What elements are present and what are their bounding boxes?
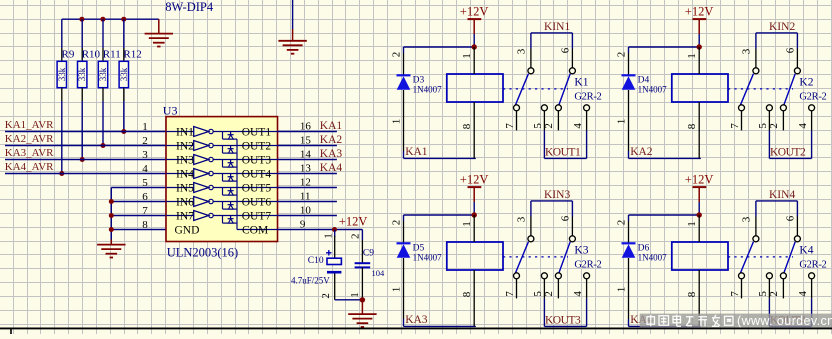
junction R10/KA3_AVR	[80, 157, 85, 162]
svg-text:KA4: KA4	[320, 162, 343, 174]
switch arms (unit K4)	[740, 242, 753, 273]
svg-text:2: 2	[543, 291, 555, 297]
svg-text:G2R-2: G2R-2	[799, 92, 826, 103]
svg-text:KIN2: KIN2	[769, 21, 795, 33]
wire net KA4_AVR	[5, 173, 166, 175]
svg-text:8W-DIP4: 8W-DIP4	[165, 0, 214, 14]
svg-text:+12V: +12V	[685, 4, 714, 18]
resistor R10 33k	[81, 19, 83, 48]
contact pins (unit K4)	[741, 279, 743, 299]
relay coil K3	[447, 242, 503, 270]
capacitor C10 4.7uF/25V	[334, 230, 336, 238]
svg-text:KA3: KA3	[320, 148, 343, 160]
capacitor C9 104	[361, 230, 363, 241]
wire KA3 net left (unit K3)	[403, 215, 405, 221]
junction +12V (unit K3)	[472, 212, 477, 217]
relay contacts K2	[755, 49, 757, 68]
svg-text:KA1_AVR: KA1_AVR	[5, 119, 54, 131]
svg-text:4.7uF/25V: 4.7uF/25V	[291, 275, 330, 285]
svg-text:104: 104	[372, 268, 386, 278]
svg-text:8: 8	[142, 219, 148, 231]
svg-text:2: 2	[616, 52, 628, 58]
svg-text:KA1: KA1	[320, 120, 343, 132]
net bracket KIN4	[756, 200, 798, 202]
relay coil K1	[447, 74, 503, 102]
switch arms (unit K2)	[740, 74, 753, 106]
svg-text:1: 1	[686, 53, 698, 59]
coil-contact link (unit K1)	[503, 88, 568, 90]
svg-text:KIN1: KIN1	[544, 21, 570, 33]
wire COM to +12V	[278, 229, 363, 231]
svg-text:R11: R11	[103, 49, 121, 61]
coil-contact link (unit K2)	[728, 88, 793, 90]
svg-text:6: 6	[559, 215, 571, 221]
svg-text:1: 1	[461, 53, 473, 59]
contact pins (unit K3)	[516, 279, 518, 299]
svg-text:IN7: IN7	[176, 211, 194, 223]
svg-text:1: 1	[142, 121, 148, 133]
op-chip U3 ULN2003 body	[166, 117, 278, 242]
diode D6 1N4007	[622, 242, 636, 244]
coil pins 1/8 (unit K1)	[473, 47, 475, 74]
svg-text:R9: R9	[62, 49, 75, 61]
diode D3 1N4007	[397, 74, 411, 76]
contact terminals (unit K1)	[528, 68, 534, 74]
net bracket KOUT1	[543, 130, 545, 158]
svg-text:6: 6	[784, 47, 796, 53]
wire U3 pin 10	[278, 215, 337, 217]
svg-text:OUT2: OUT2	[242, 141, 272, 153]
svg-text:K4: K4	[799, 245, 813, 257]
svg-text:2: 2	[768, 291, 780, 297]
svg-text:7: 7	[142, 205, 148, 217]
svg-text:KA3_AVR: KA3_AVR	[5, 147, 54, 159]
switch arms (unit K1)	[515, 74, 528, 106]
svg-text:OUT5: OUT5	[242, 183, 272, 195]
svg-text:C10: C10	[308, 256, 324, 266]
svg-text:KIN4: KIN4	[769, 189, 795, 201]
junction R11 top	[100, 17, 105, 22]
svg-text:KOUT1: KOUT1	[545, 146, 581, 158]
svg-text:2: 2	[543, 123, 555, 128]
svg-text:3: 3	[741, 216, 753, 222]
net bracket KOUT2	[768, 130, 770, 158]
svg-text:OUT1: OUT1	[242, 127, 272, 139]
wire +12V bus (unit K3)	[404, 214, 475, 216]
coil pins 1/8 (unit K4)	[698, 215, 700, 242]
svg-text:KIN3: KIN3	[544, 189, 570, 201]
svg-text:6: 6	[784, 215, 796, 221]
svg-text:33k: 33k	[57, 67, 67, 81]
svg-text:4: 4	[142, 163, 148, 175]
wire U3 pin 14	[278, 159, 337, 161]
junction R12/KA1_AVR	[121, 129, 126, 134]
U3 driver row 6	[166, 201, 194, 203]
svg-text:IN4: IN4	[176, 169, 194, 181]
svg-text:6: 6	[559, 47, 571, 53]
svg-text:GND: GND	[175, 225, 200, 237]
svg-text:10: 10	[300, 204, 312, 216]
wire U3 pin 15	[278, 145, 337, 147]
wire KA4 net left (unit K4)	[628, 215, 630, 221]
wire resistor top bus	[62, 18, 159, 20]
svg-text:13: 13	[300, 162, 312, 174]
svg-text:2: 2	[391, 52, 403, 58]
relay coil K2	[672, 74, 728, 102]
svg-text:KA1: KA1	[405, 146, 428, 158]
svg-text:2: 2	[349, 234, 361, 240]
wire U3 pin 16	[278, 131, 337, 133]
resistor R12 33k	[123, 19, 125, 48]
svg-text:COM: COM	[242, 225, 268, 237]
wire net KA2_AVR	[5, 145, 166, 147]
watermark	[640, 314, 832, 328]
svg-text:KOUT2: KOUT2	[770, 146, 806, 158]
svg-text:33k: 33k	[77, 67, 87, 81]
coil-contact link (unit K4)	[728, 256, 793, 258]
net bracket KIN3	[531, 200, 573, 202]
junction R9/KA4_AVR	[59, 171, 64, 176]
svg-text:2: 2	[616, 220, 628, 226]
svg-text:1: 1	[391, 287, 403, 293]
svg-text:1: 1	[616, 119, 628, 125]
junction pin7	[109, 213, 114, 218]
svg-text:R10: R10	[82, 49, 101, 61]
svg-text:1N4007: 1N4007	[413, 253, 442, 263]
junction +12V (unit K2)	[697, 44, 702, 49]
svg-text:8: 8	[686, 291, 698, 297]
svg-text:2: 2	[391, 220, 403, 226]
svg-text:IN3: IN3	[176, 155, 194, 167]
svg-text:+12V: +12V	[339, 214, 368, 228]
wire +12V bus (unit K1)	[404, 46, 475, 48]
svg-text:OUT3: OUT3	[242, 155, 272, 167]
junction cap ground	[360, 297, 365, 302]
net bracket KOUT4	[768, 298, 770, 326]
wire +12V bus (unit K2)	[629, 46, 700, 48]
junction +12V (unit K4)	[697, 212, 702, 217]
U3 driver row 3	[166, 159, 194, 161]
wire pins 5-8 to ground	[111, 187, 166, 189]
svg-text:9: 9	[300, 218, 306, 230]
U3 driver row 2	[166, 145, 194, 147]
U3 driver row 1	[166, 131, 194, 133]
svg-text:+12V: +12V	[685, 172, 714, 186]
svg-text:7: 7	[504, 291, 516, 297]
wire net KA1_AVR	[5, 131, 166, 133]
net bracket KIN2	[756, 32, 798, 34]
junction R11/KA2_AVR	[101, 143, 106, 148]
junction pin8	[109, 227, 114, 232]
svg-text:3: 3	[516, 216, 528, 222]
U3 driver row 5	[166, 187, 194, 189]
svg-text:K2: K2	[799, 77, 813, 89]
svg-text:G2R-2: G2R-2	[574, 260, 601, 271]
svg-text:12: 12	[300, 176, 311, 188]
relay contacts K4	[755, 217, 757, 236]
svg-text:33k: 33k	[119, 67, 129, 81]
svg-text:KOUT3: KOUT3	[545, 314, 581, 326]
contact terminals (unit K2)	[753, 68, 759, 74]
sheet border bottom	[0, 327, 832, 329]
wire KA1 net left (unit K1)	[403, 47, 405, 53]
coil-contact link (unit K3)	[503, 256, 568, 258]
diode D4 1N4007	[622, 74, 636, 76]
svg-text:KA3: KA3	[405, 314, 428, 326]
svg-text:8: 8	[461, 291, 473, 297]
svg-text:K1: K1	[574, 77, 588, 89]
wire +12V bus (unit K4)	[629, 214, 700, 216]
svg-text:1: 1	[686, 221, 698, 227]
svg-text:G2R-2: G2R-2	[799, 260, 826, 271]
wire cap bottom rail	[335, 299, 363, 301]
svg-text:7: 7	[729, 123, 741, 129]
svg-text:IN5: IN5	[176, 183, 194, 195]
svg-text:+12V: +12V	[460, 4, 489, 18]
svg-text:(www. ourdev.cn): (www. ourdev.cn)	[737, 314, 832, 328]
U3 diode common rail to COM	[236, 139, 238, 229]
svg-text:4: 4	[572, 123, 584, 129]
svg-text:5: 5	[142, 177, 148, 189]
junction R10 top	[79, 17, 84, 22]
junction +12V (unit K1)	[472, 44, 477, 49]
svg-text:3: 3	[142, 149, 148, 161]
svg-text:1: 1	[391, 119, 403, 125]
coil pins 1/8 (unit K2)	[698, 47, 700, 74]
resistor R11 33k	[102, 19, 104, 48]
svg-text:IN1: IN1	[176, 127, 194, 139]
svg-text:+12V: +12V	[460, 172, 489, 186]
svg-text:IN2: IN2	[176, 141, 194, 153]
relay coil K4	[672, 242, 728, 270]
diode D5 1N4007	[397, 242, 411, 244]
svg-text:15: 15	[300, 134, 312, 146]
svg-text:7: 7	[504, 123, 516, 129]
contact pins (unit K2)	[741, 111, 743, 131]
svg-text:OUT4: OUT4	[242, 169, 272, 181]
switch arms (unit K3)	[515, 242, 528, 273]
ground (DIP switch)	[292, 29, 294, 41]
contact terminals (unit K4)	[753, 236, 759, 242]
svg-text:1: 1	[349, 292, 361, 298]
ground (resistor bus)	[158, 19, 160, 33]
svg-text:4: 4	[797, 291, 809, 297]
svg-text:K3: K3	[574, 245, 588, 257]
svg-text:2: 2	[142, 135, 148, 147]
relay contacts K3	[530, 217, 532, 236]
svg-text:3: 3	[516, 48, 528, 54]
ground (caps)	[361, 300, 363, 314]
resistor R9 33k	[61, 19, 63, 48]
svg-text:OUT6: OUT6	[242, 197, 272, 209]
relay contacts K1	[530, 49, 532, 68]
svg-text:1: 1	[323, 233, 335, 239]
wire U3 pin 11	[278, 201, 337, 203]
svg-text:R12: R12	[123, 49, 141, 61]
svg-text:1N4007: 1N4007	[413, 85, 442, 95]
svg-text:2: 2	[768, 123, 780, 128]
svg-text:7: 7	[729, 291, 741, 297]
contact terminals (unit K3)	[528, 236, 534, 242]
svg-text:16: 16	[300, 120, 312, 132]
net bracket KIN1	[531, 32, 573, 34]
svg-text:KA2_AVR: KA2_AVR	[5, 133, 54, 145]
wire net KA3_AVR	[5, 159, 166, 161]
svg-text:1: 1	[616, 287, 628, 293]
svg-text:U3: U3	[163, 103, 178, 117]
svg-text:3: 3	[741, 48, 753, 54]
wire U3 pin 13	[278, 173, 337, 175]
contact pins (unit K1)	[516, 111, 518, 131]
junction COM/C10	[332, 227, 337, 232]
U3 driver row 4	[166, 173, 194, 175]
svg-text:C9: C9	[363, 248, 374, 258]
junction pin6	[109, 199, 114, 204]
wire U3 pin 12	[278, 187, 337, 189]
svg-text:1N4007: 1N4007	[638, 253, 667, 263]
svg-text:4: 4	[797, 123, 809, 129]
svg-text:IN6: IN6	[176, 197, 194, 209]
svg-text:OUT7: OUT7	[242, 211, 272, 223]
net bracket KOUT3	[543, 298, 545, 326]
svg-text:1: 1	[461, 221, 473, 227]
svg-text:11: 11	[300, 190, 311, 202]
svg-text:33k: 33k	[98, 67, 108, 81]
svg-text:KA4_AVR: KA4_AVR	[5, 161, 54, 173]
svg-text:2: 2	[320, 293, 332, 299]
svg-text:6: 6	[142, 191, 148, 203]
U3 driver row 7	[166, 215, 194, 217]
svg-text:KA2: KA2	[320, 134, 343, 146]
ground (U3 inputs)	[110, 240, 112, 245]
wire KA2 net left (unit K2)	[628, 47, 630, 53]
coil pins 1/8 (unit K3)	[473, 215, 475, 242]
svg-text:14: 14	[300, 148, 312, 160]
svg-text:8: 8	[686, 123, 698, 129]
svg-text:G2R-2: G2R-2	[574, 92, 601, 103]
svg-text:KA2: KA2	[630, 146, 653, 158]
svg-text:4: 4	[572, 291, 584, 297]
junction R12 top	[121, 17, 126, 22]
svg-text:ULN2003(16): ULN2003(16)	[167, 246, 239, 260]
svg-text:1N4007: 1N4007	[638, 85, 667, 95]
svg-text:8: 8	[461, 123, 473, 129]
wire from DIP switch	[292, 0, 294, 29]
